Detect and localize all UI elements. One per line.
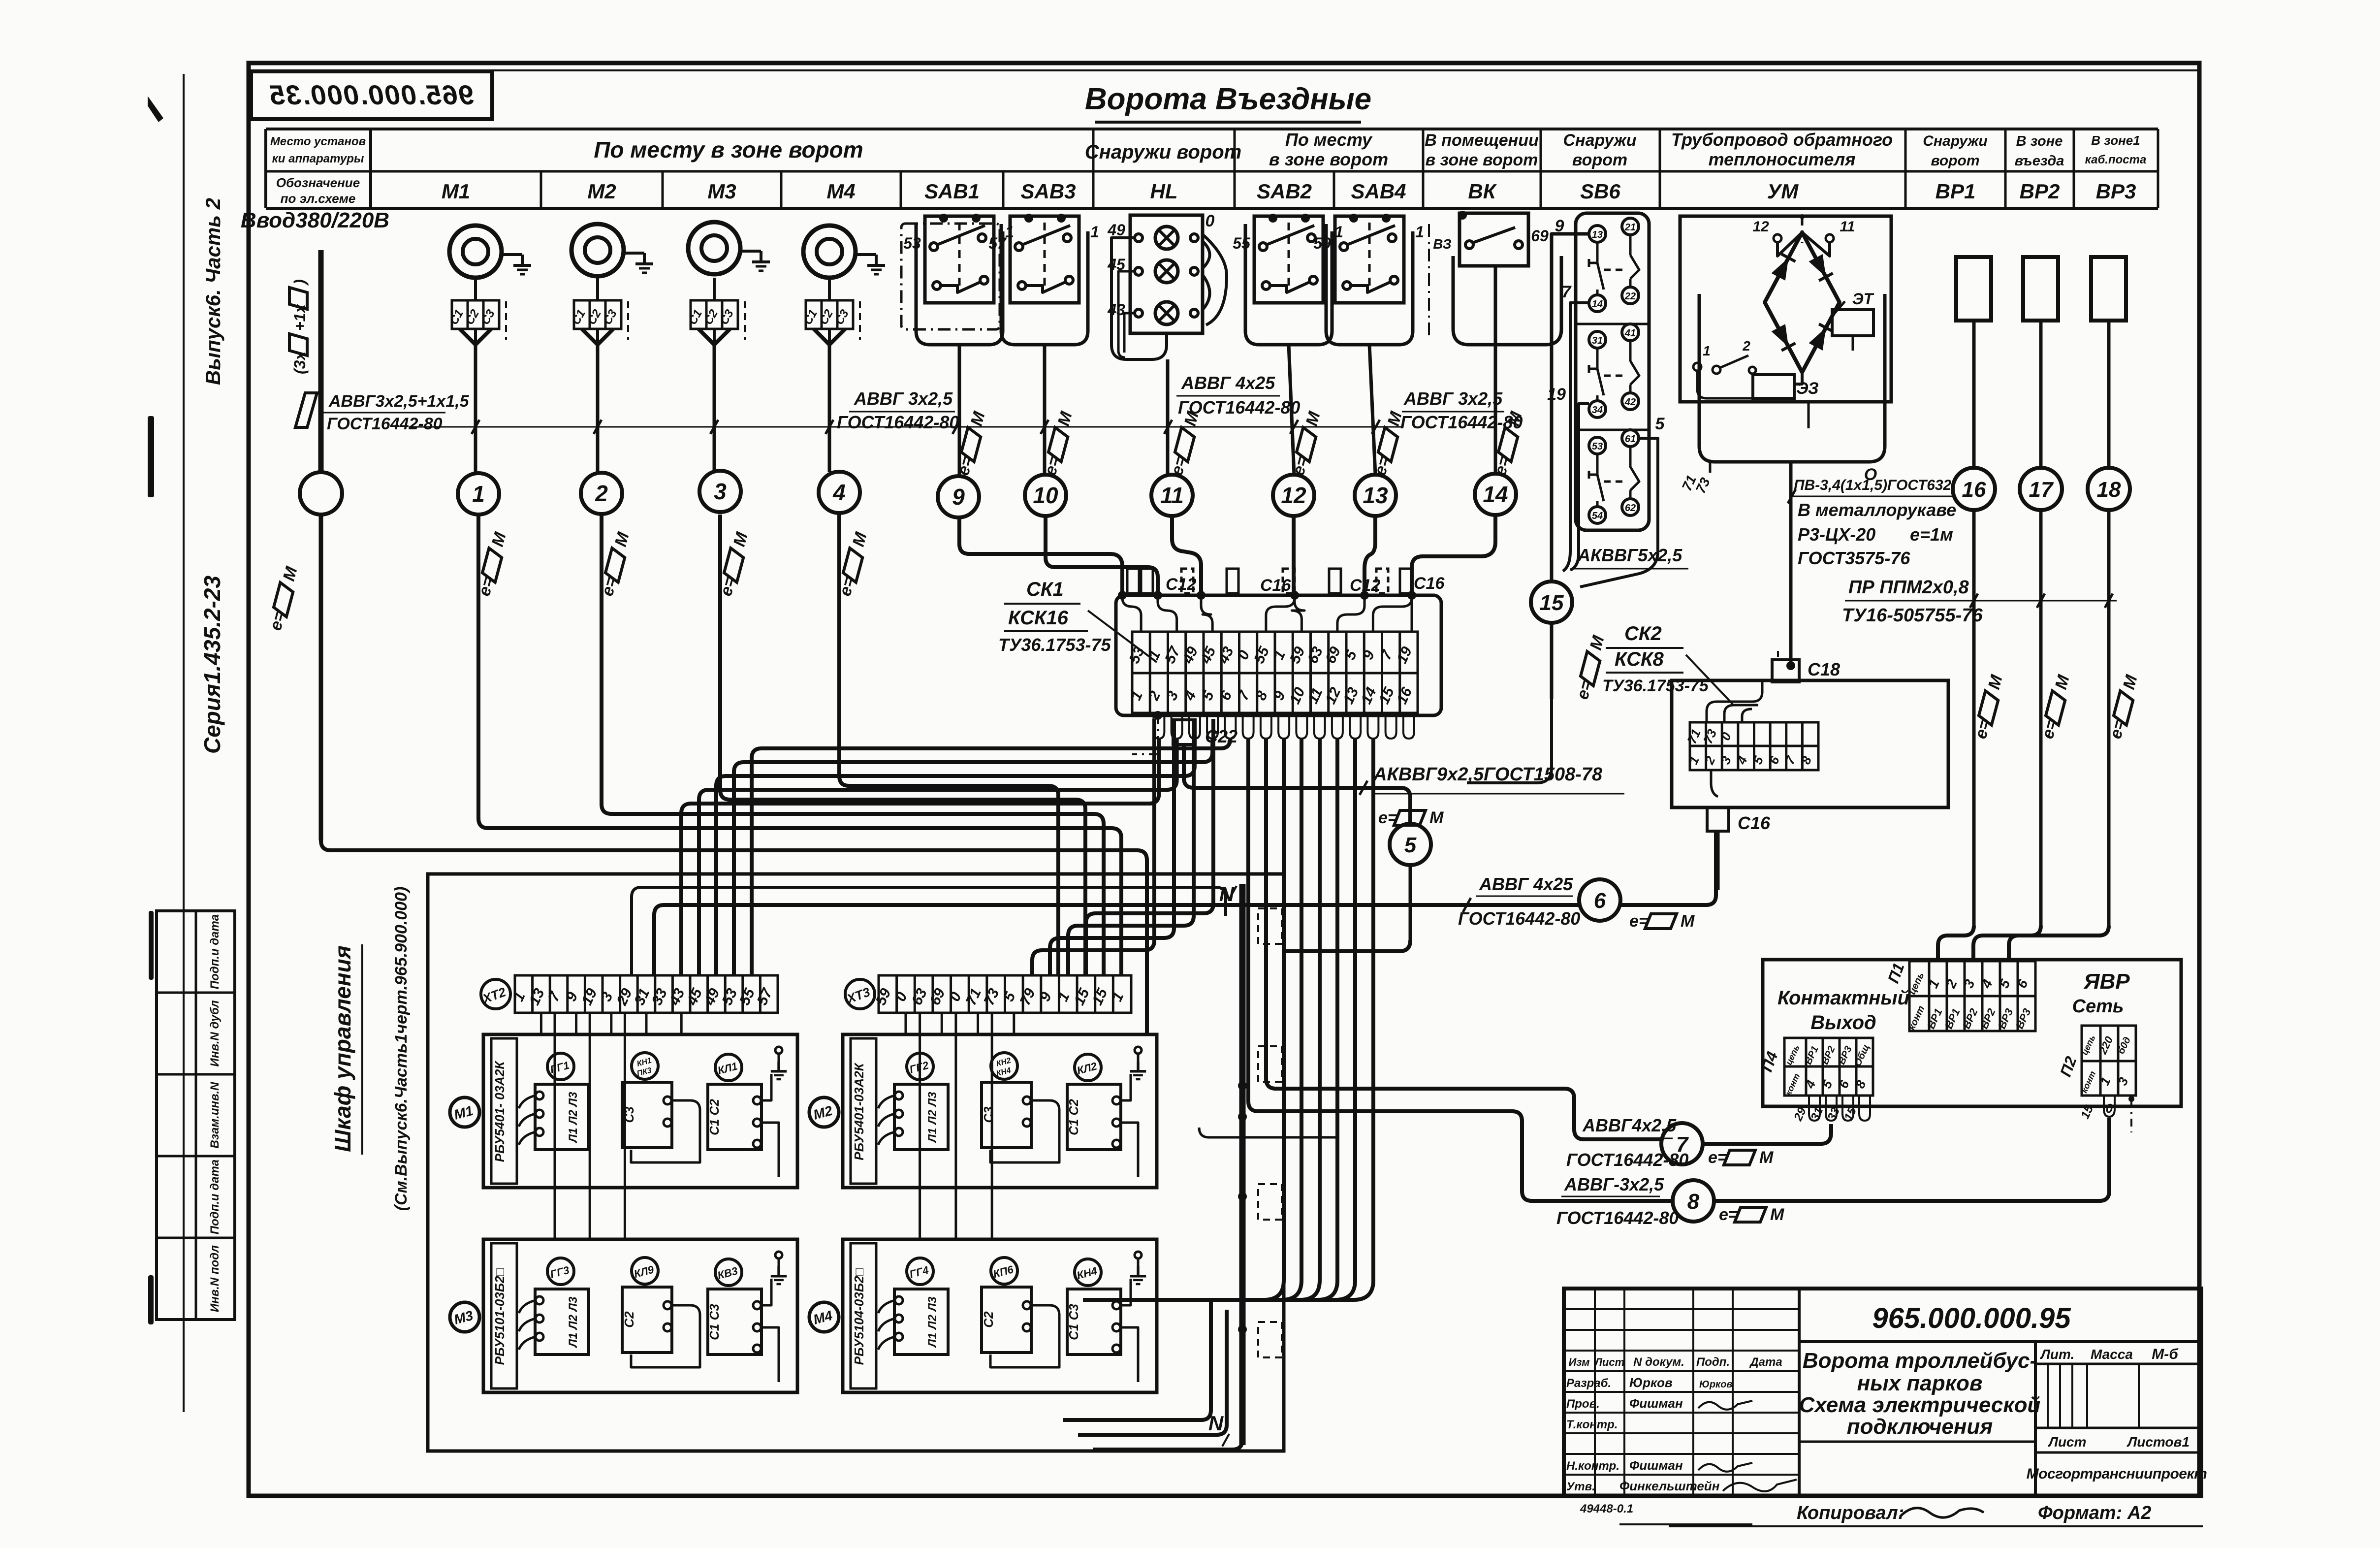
svg-text:Т.контр.: Т.контр. [1566, 1418, 1618, 1431]
svg-text:Л1 Л2 Л3: Л1 Л2 Л3 [567, 1092, 580, 1143]
svg-text:18: 18 [2097, 478, 2121, 502]
svg-text:N докум.: N докум. [1633, 1355, 1684, 1369]
svg-text:М4: М4 [826, 180, 855, 203]
svg-text:ЯВР: ЯВР [2083, 969, 2130, 994]
svg-text:8: 8 [1687, 1190, 1700, 1214]
svg-text:SAB2: SAB2 [1257, 180, 1312, 203]
svg-text:17: 17 [2029, 478, 2054, 502]
svg-text:31: 31 [1592, 335, 1603, 346]
svg-text:Н.контр.: Н.контр. [1566, 1459, 1619, 1473]
svg-text:С16: С16 [1414, 574, 1445, 593]
svg-text:SAB3: SAB3 [1020, 180, 1076, 203]
svg-text:HL: HL [1150, 180, 1178, 203]
svg-text:3: 3 [714, 479, 727, 504]
svg-text:РБУ5101-03Б2□: РБУ5101-03Б2□ [492, 1268, 507, 1365]
svg-text:ВР3: ВР3 [2096, 180, 2136, 203]
svg-text:ГОСТ3575-76: ГОСТ3575-76 [1798, 548, 1910, 568]
svg-text:1: 1 [1415, 223, 1424, 241]
svg-text:Масса: Масса [2091, 1347, 2133, 1362]
svg-text:Финкельштейн: Финкельштейн [1619, 1479, 1720, 1493]
svg-text:Инв.N дубл: Инв.N дубл [208, 1000, 222, 1066]
svg-text:Л1 Л2 Л3: Л1 Л2 Л3 [926, 1296, 939, 1348]
svg-text:Ворота Въездные: Ворота Въездные [1085, 82, 1371, 116]
svg-text:Снаружи: Снаружи [1563, 131, 1636, 150]
svg-text:С3: С3 [622, 1106, 636, 1123]
svg-text:С1 С3: С1 С3 [1066, 1304, 1081, 1340]
svg-text:М: М [1759, 1148, 1774, 1167]
svg-text:в зоне ворот: в зоне ворот [1426, 151, 1538, 169]
svg-text:11: 11 [1840, 219, 1855, 235]
svg-text:ных парков: ных парков [1857, 1371, 1983, 1395]
svg-text:53: 53 [1592, 441, 1603, 452]
svg-text:ворот: ворот [1572, 151, 1627, 169]
svg-text:ГОСТ16442-80: ГОСТ16442-80 [1556, 1208, 1679, 1228]
svg-text:КСК8: КСК8 [1615, 648, 1664, 670]
svg-text:2: 2 [595, 481, 608, 506]
svg-text:59: 59 [1313, 234, 1331, 252]
svg-text:каб.поста: каб.поста [2085, 153, 2147, 166]
svg-text:Взам.инв.N: Взам.инв.N [208, 1082, 222, 1149]
svg-text:ВР1: ВР1 [1936, 180, 1976, 203]
svg-text:55: 55 [1233, 234, 1251, 252]
svg-text:): ) [291, 279, 309, 286]
svg-text:в зоне ворот: в зоне ворот [1269, 149, 1388, 169]
svg-text:АВВГ-3х2,5: АВВГ-3х2,5 [1564, 1174, 1664, 1194]
svg-text:М: М [1770, 1205, 1784, 1224]
svg-text:АВВГ4х2,5: АВВГ4х2,5 [1582, 1115, 1677, 1135]
svg-text:въезда: въезда [2015, 153, 2064, 169]
svg-text:М3: М3 [707, 180, 736, 203]
svg-text:49448-0.1: 49448-0.1 [1580, 1502, 1633, 1516]
svg-text:Листов1: Листов1 [2126, 1434, 2190, 1450]
svg-text:ки аппаратуры: ки аппаратуры [272, 152, 364, 165]
svg-text:13: 13 [1592, 229, 1603, 240]
svg-text:9: 9 [952, 484, 965, 510]
svg-text:РБУ5401-03А2К: РБУ5401-03А2К [852, 1062, 866, 1160]
svg-text:С22: С22 [1205, 726, 1238, 746]
svg-text:С1 С2: С1 С2 [707, 1099, 722, 1135]
svg-text:Подп.и дата: Подп.и дата [208, 914, 222, 989]
svg-text:ЭЗ: ЭЗ [1796, 379, 1819, 398]
svg-text:22: 22 [1624, 291, 1636, 302]
svg-text:2: 2 [1742, 338, 1750, 354]
svg-text:М-б: М-б [2152, 1346, 2179, 1362]
svg-text:ТУ16-505755-76: ТУ16-505755-76 [1842, 605, 1983, 626]
svg-text:69: 69 [1531, 227, 1549, 245]
svg-text:ВЗ: ВЗ [1433, 236, 1452, 252]
svg-text:УМ: УМ [1767, 180, 1799, 203]
svg-text:ПР ППМ2х0,8: ПР ППМ2х0,8 [1848, 577, 1969, 598]
svg-text:В зоне: В зоне [2016, 133, 2063, 149]
svg-text:С2: С2 [981, 1311, 996, 1328]
svg-text:С3: С3 [981, 1106, 996, 1123]
svg-text:Фишман: Фишман [1629, 1396, 1683, 1411]
svg-text:РБУ5401- 03А2К: РБУ5401- 03А2К [492, 1061, 507, 1162]
svg-text:ЭТ: ЭТ [1852, 290, 1874, 308]
svg-text:КСК16: КСК16 [1008, 607, 1069, 629]
svg-text:5: 5 [1655, 415, 1665, 433]
svg-text:ВК: ВК [1468, 180, 1497, 203]
svg-text:Серия1.435.2-23: Серия1.435.2-23 [199, 576, 225, 754]
svg-text:Место установ: Место установ [270, 135, 366, 148]
svg-text:Трубопровод обратного: Трубопровод обратного [1671, 129, 1893, 150]
svg-text:С1 С2: С1 С2 [1066, 1099, 1081, 1135]
svg-text:42: 42 [1624, 397, 1636, 408]
svg-text:РБУ5104-03Б2□: РБУ5104-03Б2□ [852, 1268, 866, 1365]
svg-text:Формат: А2: Формат: А2 [2038, 1503, 2151, 1523]
svg-text:4: 4 [832, 480, 846, 505]
svg-text:7: 7 [1562, 283, 1572, 301]
svg-text:Выпуск6. Часть 2: Выпуск6. Часть 2 [201, 198, 224, 385]
svg-text:ворот: ворот [1931, 153, 1979, 169]
svg-text:1: 1 [1703, 343, 1711, 358]
svg-text:ГОСТ16442-80: ГОСТ16442-80 [1458, 908, 1580, 929]
svg-text:СК2: СК2 [1624, 623, 1662, 645]
svg-text:С16: С16 [1260, 576, 1291, 595]
svg-text:АКВВГ5х2,5: АКВВГ5х2,5 [1577, 545, 1682, 565]
svg-text:АВВГ 3х2,5: АВВГ 3х2,5 [854, 388, 953, 409]
svg-text:Обозначение: Обозначение [276, 175, 360, 190]
svg-text:(См.Выпуск6.Часть1черт.965.900: (См.Выпуск6.Часть1черт.965.900.000) [392, 887, 411, 1211]
svg-text:57: 57 [988, 234, 1007, 252]
svg-text:Снаружи ворот: Снаружи ворот [1085, 141, 1241, 163]
svg-text:Ввод380/220В: Ввод380/220В [241, 208, 389, 232]
svg-text:Разраб.: Разраб. [1566, 1377, 1611, 1390]
svg-text:14: 14 [1483, 482, 1508, 507]
svg-text:62: 62 [1625, 503, 1636, 514]
svg-text:15: 15 [1540, 591, 1564, 615]
svg-text:АВВГ 4х25: АВВГ 4х25 [1181, 373, 1275, 393]
svg-text:34: 34 [1592, 405, 1603, 416]
svg-text:С2: С2 [622, 1311, 636, 1328]
svg-text:Л1 Л2 Л3: Л1 Л2 Л3 [567, 1296, 580, 1348]
svg-text:21: 21 [1624, 222, 1636, 233]
svg-text:Выход: Выход [1810, 1012, 1876, 1033]
svg-text:АВВГ3х2,5+1х1,5: АВВГ3х2,5+1х1,5 [328, 392, 470, 411]
svg-text:Подп.: Подп. [1696, 1355, 1730, 1369]
svg-text:М1: М1 [442, 180, 470, 203]
svg-text:М: М [1681, 912, 1695, 931]
svg-text:6: 6 [1594, 889, 1606, 913]
svg-text:13: 13 [1363, 483, 1388, 508]
svg-text:Сеть: Сеть [2072, 996, 2124, 1017]
svg-text:Р3-ЦХ-20: Р3-ЦХ-20 [1798, 524, 1875, 545]
svg-text:По месту: По месту [1285, 129, 1373, 150]
svg-text:11: 11 [1160, 483, 1184, 508]
svg-text:ГОСТ16442-80: ГОСТ16442-80 [327, 415, 443, 433]
svg-text:ТУ36.1753-75: ТУ36.1753-75 [1602, 677, 1709, 695]
svg-text:С12: С12 [1166, 575, 1196, 594]
svg-text:0: 0 [1206, 212, 1215, 230]
svg-text:Схема электрической: Схема электрической [1799, 1393, 2041, 1417]
svg-text:SB6: SB6 [1580, 180, 1620, 203]
svg-text:1: 1 [472, 481, 485, 507]
svg-text:Дата: Дата [1749, 1355, 1782, 1369]
svg-text:Л1 Л2 Л3: Л1 Л2 Л3 [926, 1092, 939, 1143]
svg-text:61: 61 [1625, 434, 1636, 445]
svg-text:Лист: Лист [1594, 1356, 1624, 1368]
svg-text:по эл.схеме: по эл.схеме [281, 191, 356, 206]
svg-text:965.000.000.35: 965.000.000.35 [269, 79, 474, 110]
svg-text:12: 12 [1281, 483, 1306, 508]
svg-text:41: 41 [1624, 328, 1636, 339]
svg-text:ГОСТ16442-80: ГОСТ16442-80 [1566, 1150, 1688, 1170]
svg-text:В металлорукаве: В металлорукаве [1798, 500, 1956, 520]
svg-text:1: 1 [1090, 223, 1099, 241]
svg-text:43: 43 [1107, 301, 1125, 319]
svg-text:Лист: Лист [2048, 1434, 2087, 1450]
svg-text:С18: С18 [1808, 659, 1840, 679]
svg-text:АВВГ 4х25: АВВГ 4х25 [1479, 874, 1573, 894]
svg-text:Контактный: Контактный [1777, 987, 1909, 1009]
svg-text:SAB1: SAB1 [924, 180, 980, 203]
svg-text:С16: С16 [1738, 813, 1771, 833]
svg-text:теплоносителя: теплоносителя [1709, 149, 1856, 169]
svg-text:54: 54 [1592, 511, 1603, 521]
svg-text:Ворота троллейбус-: Ворота троллейбус- [1803, 1349, 2037, 1373]
svg-text:ГОСТ16442-80: ГОСТ16442-80 [1178, 397, 1300, 418]
svg-text:0: 0 [2106, 1101, 2113, 1116]
svg-text:подключения: подключения [1847, 1415, 1993, 1439]
svg-text:По месту в зоне ворот: По месту в зоне ворот [594, 137, 863, 162]
svg-text:АКВВГ9х2,5ГОСТ1508-78: АКВВГ9х2,5ГОСТ1508-78 [1373, 764, 1603, 785]
svg-text:SAB4: SAB4 [1351, 180, 1406, 203]
svg-text:Копировал:: Копировал: [1797, 1503, 1904, 1523]
svg-text:ГОСТ16442-80: ГОСТ16442-80 [837, 412, 959, 432]
svg-text:Юрков: Юрков [1699, 1379, 1733, 1390]
svg-text:Утв.: Утв. [1566, 1480, 1595, 1493]
svg-text:С1 С3: С1 С3 [707, 1304, 722, 1340]
svg-text:ГОСТ16442-80: ГОСТ16442-80 [1400, 412, 1523, 432]
svg-text:12: 12 [1752, 219, 1769, 235]
svg-text:Пров.: Пров. [1566, 1397, 1600, 1411]
svg-text:965.000.000.95: 965.000.000.95 [1872, 1302, 2071, 1334]
svg-text:Шкаф управления: Шкаф управления [330, 945, 355, 1152]
svg-text:Мосгортрансниипроект: Мосгортрансниипроект [2027, 1466, 2207, 1482]
svg-text:Снаружи: Снаружи [1923, 133, 1987, 149]
svg-text:ВР2: ВР2 [2020, 180, 2060, 203]
svg-text:М: М [1429, 808, 1444, 827]
svg-text:49: 49 [1107, 221, 1125, 239]
svg-text:Лит.: Лит. [2040, 1347, 2075, 1362]
svg-text:В зоне1: В зоне1 [2091, 133, 2140, 148]
svg-text:53: 53 [903, 234, 921, 252]
svg-text:Фишман: Фишман [1629, 1458, 1683, 1473]
svg-text:СК1: СК1 [1026, 579, 1064, 600]
svg-text:В помещении: В помещении [1425, 131, 1539, 150]
svg-text:Инв.N подл: Инв.N подл [208, 1245, 222, 1312]
svg-text:16: 16 [1962, 478, 1986, 502]
svg-text:М2: М2 [587, 180, 616, 203]
svg-text:ТУ36.1753-75: ТУ36.1753-75 [998, 635, 1111, 655]
svg-text:е=1м: е=1м [1910, 524, 1953, 545]
svg-text:14: 14 [1592, 299, 1603, 310]
svg-text:10: 10 [1033, 483, 1058, 508]
svg-text:Подп.и дата: Подп.и дата [208, 1160, 222, 1234]
svg-text:АВВГ 3х2,5: АВВГ 3х2,5 [1403, 388, 1503, 409]
svg-text:5: 5 [1404, 833, 1417, 857]
svg-text:Юрков: Юрков [1629, 1375, 1673, 1390]
svg-text:Изм: Изм [1568, 1356, 1589, 1368]
